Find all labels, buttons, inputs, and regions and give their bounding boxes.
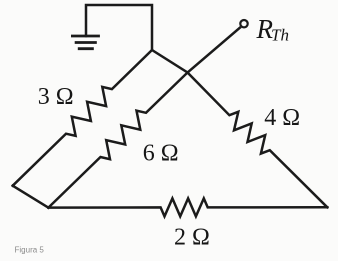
svg-text:4 Ω: 4 Ω [264, 105, 300, 131]
svg-text:6 Ω: 6 Ω [143, 140, 179, 166]
resistor R3 4ohm (node through crossing to right vertex) [152, 50, 327, 207]
svg-text:Th: Th [271, 25, 289, 44]
svg-text:2 Ω: 2 Ω [174, 224, 210, 250]
svg-text:Figura 5: Figura 5 [15, 245, 45, 254]
ground [72, 36, 98, 49]
svg-text:3 Ω: 3 Ω [38, 84, 74, 110]
wire top (ground stem, top run, right drop to node) [86, 5, 152, 50]
resistor R1 3ohm (node to left vertex) [13, 50, 152, 186]
resistor R4 2ohm (bottom wire) [48, 198, 327, 216]
resistor R2 6ohm (terminal line down-left, crossing, to bottom-left vertex) [48, 28, 239, 208]
wire left vertex to bottom-left vertex [13, 186, 49, 208]
terminal circle RTh [240, 20, 247, 27]
